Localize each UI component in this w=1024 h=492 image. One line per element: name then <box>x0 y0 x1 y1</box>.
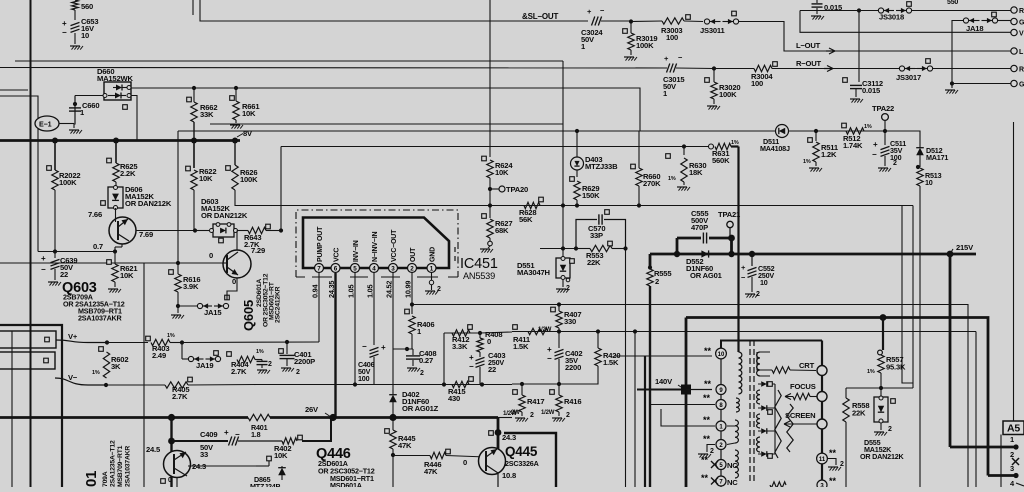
svg-text:−: − <box>547 354 552 363</box>
svg-text:33: 33 <box>200 450 208 459</box>
svg-text:V+: V+ <box>68 332 78 341</box>
wire y331 long line <box>512 332 976 488</box>
wire thick x738 flyback feed <box>731 147 739 353</box>
label NC pin7 <box>711 478 738 488</box>
IC451 pin 6 voltage 24.35 <box>327 281 336 298</box>
transistor Q605 <box>222 231 251 301</box>
wire pin10 top <box>721 341 822 349</box>
wire thick to A5 pin1 <box>950 318 1019 450</box>
svg-text:2: 2 <box>296 369 300 376</box>
resistor R555 <box>647 254 673 487</box>
node bus x235 <box>232 138 238 144</box>
svg-text:OR AG01Z: OR AG01Z <box>402 404 439 413</box>
flyback secondary diode 4 <box>758 451 775 457</box>
label V- <box>68 373 78 382</box>
svg-text:10K: 10K <box>242 109 256 118</box>
IC451 pin 7 <box>315 264 324 273</box>
svg-text:2: 2 <box>268 361 272 368</box>
resistor R553 <box>576 241 626 267</box>
wire corner L-OUT <box>768 22 1012 52</box>
node R511 <box>814 129 818 133</box>
svg-text:OR DAN212K: OR DAN212K <box>201 211 248 220</box>
capacitor C403 <box>469 351 505 385</box>
wire y356 pin10 line <box>614 355 712 357</box>
label Q605 part numbers rotated <box>256 273 282 327</box>
resistor R445 <box>385 418 417 456</box>
wire out line y304 <box>412 305 968 488</box>
svg-text:8V: 8V <box>243 129 253 138</box>
terminal TPA22 <box>872 104 894 131</box>
IC451 pin 6 <box>331 264 340 273</box>
node TPA20 branch <box>488 187 492 191</box>
wire pin1 left <box>661 409 715 426</box>
svg-text:R417: R417 <box>527 397 544 406</box>
diode D555 <box>860 388 905 461</box>
resistor R408 <box>477 330 503 352</box>
capacitor C3015 <box>663 53 714 98</box>
terminal TPA20 <box>490 185 528 194</box>
wire pin4 down <box>373 273 375 345</box>
diode D402 <box>389 390 438 418</box>
node Q445 collector <box>489 429 502 436</box>
svg-text:140V: 140V <box>655 377 673 386</box>
resistor R415 <box>448 377 473 403</box>
svg-text:33K: 33K <box>200 110 214 119</box>
svg-text:100K: 100K <box>719 90 737 99</box>
svg-text:0.94: 0.94 <box>311 283 320 298</box>
svg-text:MA171: MA171 <box>926 153 948 162</box>
connector pin L <box>1011 48 1024 56</box>
flyback pin 11 <box>817 448 844 471</box>
svg-text:2: 2 <box>437 286 441 293</box>
connector pin V <box>1011 29 1024 37</box>
svg-text:2: 2 <box>566 412 570 419</box>
node R513 <box>916 165 920 169</box>
node R616 bottom <box>171 304 184 319</box>
svg-text:IC451: IC451 <box>460 256 498 272</box>
label 0 Q445 <box>463 458 467 467</box>
capacitor C555 <box>691 209 709 244</box>
resistor R511 <box>803 131 839 172</box>
node 26V main <box>168 414 175 421</box>
svg-text:150K: 150K <box>582 191 600 200</box>
IC451 pin 5 voltage 1.05 <box>347 284 356 298</box>
label Q603 group <box>62 280 125 323</box>
node R420 top <box>596 329 600 333</box>
wire line y131 <box>178 130 920 132</box>
svg-text:C409: C409 <box>200 430 217 439</box>
node R643 right <box>279 147 283 233</box>
resistor R660 <box>631 131 661 206</box>
svg-text:4: 4 <box>372 265 376 272</box>
svg-text:MA3047H: MA3047H <box>517 268 550 277</box>
wire thick x645 <box>644 356 646 487</box>
svg-text:100: 100 <box>751 79 763 88</box>
svg-text:−: − <box>872 150 877 159</box>
node rail B x731 <box>728 251 734 257</box>
flyback secondary winding 4 <box>757 437 760 452</box>
wire x490 vertical <box>489 0 491 157</box>
label Q445 group <box>505 444 539 468</box>
diode D660 dual <box>97 67 133 100</box>
resistor R407 <box>538 302 581 333</box>
node y384 C402 <box>557 382 561 386</box>
svg-text:3: 3 <box>1010 464 1014 473</box>
resistor CRT series <box>757 352 816 373</box>
flyback pin 2 <box>716 440 726 450</box>
IC451 pin 1 label GND <box>430 247 437 262</box>
label V+ <box>68 332 78 341</box>
wire pin3 down <box>392 273 394 394</box>
svg-text:A5: A5 <box>1007 423 1020 435</box>
node R621 <box>113 249 117 253</box>
node R629 bottom <box>575 203 579 207</box>
svg-text:709A: 709A <box>102 471 109 487</box>
resistor R3004 <box>714 62 1012 88</box>
resistor R661 <box>230 86 261 123</box>
wire V+ curve <box>56 340 107 343</box>
resistor R3003 <box>631 15 703 42</box>
svg-text:2SC2412KR: 2SC2412KR <box>275 286 282 323</box>
node y384 left <box>520 382 524 386</box>
svg-text:1%: 1% <box>867 369 875 375</box>
wire line y146 <box>281 146 710 148</box>
wire thick y317 line <box>686 318 988 476</box>
node pin5 y384 <box>353 382 357 386</box>
svg-text:01: 01 <box>83 471 100 487</box>
label 140V <box>655 377 684 389</box>
capacitor C570 box <box>576 210 626 249</box>
resistor bottom edge <box>770 482 786 488</box>
svg-text:MTZJ33B: MTZJ33B <box>585 162 618 171</box>
terminal CRT <box>817 366 827 376</box>
svg-text:7.69: 7.69 <box>139 230 153 239</box>
svg-text:+: + <box>381 343 386 352</box>
IC451 pin 6 label VCC <box>334 248 341 262</box>
jumper JS3018 <box>878 2 1012 22</box>
svg-text:+: + <box>62 19 67 28</box>
svg-text:R: R <box>1019 67 1024 74</box>
svg-text:+: + <box>41 254 46 263</box>
label R-OUT <box>796 59 833 72</box>
resistor R624 <box>482 156 514 205</box>
resistor R513 <box>917 168 942 487</box>
label Q601 rotated block <box>83 440 132 487</box>
node C401 <box>285 340 289 344</box>
connector box lower left <box>0 352 55 369</box>
svg-text:10.99: 10.99 <box>404 281 413 298</box>
flyback secondary bus <box>774 384 776 454</box>
svg-text:10: 10 <box>760 278 768 287</box>
svg-text:R: R <box>1019 8 1024 15</box>
ground E-1 <box>69 130 82 134</box>
svg-text:1.8: 1.8 <box>251 430 261 439</box>
capacitor C653 <box>62 10 98 44</box>
svg-text:22K: 22K <box>852 409 866 418</box>
label 7.66 <box>88 210 102 219</box>
svg-text:7.29: 7.29 <box>251 246 265 255</box>
label 0 Q601 <box>161 477 172 484</box>
svg-text:1%: 1% <box>256 349 264 355</box>
svg-text:550: 550 <box>947 0 958 6</box>
svg-text:−: − <box>362 342 367 351</box>
resistor R401 <box>248 414 270 420</box>
svg-text:3: 3 <box>391 265 395 272</box>
node D403 top <box>575 129 579 157</box>
flyback pin stars <box>701 346 712 483</box>
svg-text:2.7K: 2.7K <box>172 392 188 401</box>
resistor R643 <box>237 224 281 249</box>
wire line y263 <box>0 263 222 487</box>
svg-text:R−OUT: R−OUT <box>796 59 822 68</box>
svg-text:VCC−OUT: VCC−OUT <box>391 229 398 262</box>
svg-text:1.2K: 1.2K <box>821 150 837 159</box>
IC451 pin 5 label INV−IN <box>353 240 360 262</box>
resistor R405 <box>106 377 256 401</box>
wire x627 vertical <box>625 249 627 488</box>
wire x178 corner down <box>177 131 179 263</box>
svg-text:**: ** <box>703 434 711 444</box>
svg-text:18K: 18K <box>689 168 703 177</box>
connector A5 box <box>1003 421 1024 435</box>
resistor R558 <box>843 388 870 487</box>
label NC pin5 <box>711 461 738 470</box>
svg-text:1/2W: 1/2W <box>538 327 552 333</box>
svg-text:3.9K: 3.9K <box>183 282 199 291</box>
svg-text:MSD601A: MSD601A <box>330 481 362 487</box>
svg-text:0.7: 0.7 <box>93 242 103 251</box>
box Q445 <box>504 433 556 487</box>
label 24.5 <box>146 445 161 454</box>
svg-text:G: G <box>1019 20 1024 27</box>
wire thick corner right of bus <box>498 418 512 433</box>
svg-text:10: 10 <box>81 31 89 40</box>
svg-text:0: 0 <box>168 477 172 484</box>
wire pin8 left <box>651 404 715 406</box>
svg-text:1%: 1% <box>668 176 676 182</box>
svg-text:−: − <box>62 28 67 37</box>
svg-text:95.3K: 95.3K <box>886 363 906 372</box>
node Q603 collector line <box>193 228 209 232</box>
svg-text:FOCUS: FOCUS <box>790 382 816 391</box>
svg-text:CRT: CRT <box>799 361 815 370</box>
wire y88 from D660 <box>131 88 640 131</box>
svg-text:33P: 33P <box>590 231 603 240</box>
wire thick CRT vertical <box>821 341 823 488</box>
capacitor C402 <box>547 332 582 385</box>
wire line y124 <box>210 123 563 125</box>
svg-text:**: ** <box>701 455 709 465</box>
flyback pin 10 <box>716 348 727 359</box>
label 24.3 Q601 <box>192 462 206 471</box>
svg-text:6: 6 <box>334 265 338 272</box>
node x563 y205 <box>561 203 565 207</box>
svg-text:1%: 1% <box>167 333 175 339</box>
terminal FOCUS <box>817 392 827 402</box>
svg-text:2: 2 <box>710 448 714 455</box>
flyback secondary winding 3 <box>757 414 760 428</box>
svg-text:24.5: 24.5 <box>146 445 161 454</box>
svg-text:VCC: VCC <box>334 248 341 262</box>
svg-text:TPA21: TPA21 <box>718 210 741 219</box>
flyback winding pin1 <box>727 420 738 445</box>
flyback secondary winding 1 <box>757 352 770 376</box>
diode D403 <box>570 155 618 181</box>
resistor R616 <box>169 261 201 306</box>
capacitor C3111 <box>811 0 843 20</box>
resistor R3020 <box>705 69 741 110</box>
node x952 ground <box>945 32 1012 93</box>
ground R661 <box>230 125 243 129</box>
svg-text:NC: NC <box>727 461 738 470</box>
svg-text:2: 2 <box>888 426 892 433</box>
svg-text:0: 0 <box>487 337 491 346</box>
capacitor C405 <box>257 360 273 374</box>
flyback secondary winding 2 <box>757 390 760 404</box>
wire x902 vertical <box>902 206 913 384</box>
resistor R406 <box>405 305 435 350</box>
capacitor C408 <box>406 349 436 377</box>
node rail B x677 <box>674 251 680 257</box>
resistor R653 top 560 <box>72 0 93 11</box>
svg-text:47K: 47K <box>424 467 438 476</box>
node x442 y384 <box>442 333 446 387</box>
resistor R403 <box>107 333 182 360</box>
flyback pin 9 <box>716 385 726 395</box>
svg-text:2: 2 <box>893 160 897 167</box>
node bus x194 <box>191 138 197 144</box>
wire pin7 down <box>318 273 320 342</box>
flyback secondary diode 1 <box>758 381 775 387</box>
svg-text:OR DAN212K: OR DAN212K <box>860 452 905 461</box>
resistor R630 <box>666 144 707 190</box>
label SL-OUT <box>522 12 558 21</box>
svg-text:JS3011: JS3011 <box>700 26 726 35</box>
wire V+ line to C401 <box>182 341 319 344</box>
resistor R420 <box>512 332 620 385</box>
svg-text:1/2W: 1/2W <box>541 410 555 416</box>
wire y205 corner x913 <box>912 206 914 389</box>
svg-text:3K: 3K <box>111 362 121 371</box>
flyback pin chain vertical <box>720 345 722 487</box>
svg-text:PUMP OUT: PUMP OUT <box>317 226 324 262</box>
svg-text:2SA1037AKR: 2SA1037AKR <box>125 446 132 487</box>
wire line y61 <box>15 60 563 62</box>
wire line y90 left <box>0 89 28 91</box>
resistor R416 <box>541 384 581 422</box>
resistor R622 <box>186 141 217 231</box>
wire thick rail A C555 <box>677 238 732 254</box>
svg-text:**: ** <box>703 393 711 403</box>
svg-text:1.5K: 1.5K <box>513 342 529 351</box>
wire 26V bus <box>0 416 498 419</box>
label CRT <box>799 361 815 370</box>
label FOCUS <box>790 382 816 391</box>
node C409 branch <box>168 438 175 445</box>
svg-text:Q445: Q445 <box>505 444 538 459</box>
label R401 value <box>251 423 268 439</box>
capacitor C409 <box>172 428 283 459</box>
svg-text:10K: 10K <box>120 271 134 280</box>
connector pin G <box>1011 18 1024 26</box>
wire line y96 left <box>0 96 38 252</box>
wire thick down from 26V node <box>170 418 172 488</box>
wire x635 vertical <box>634 332 636 488</box>
IC451 pin 4 <box>370 264 379 273</box>
svg-text:1%: 1% <box>92 370 100 376</box>
svg-text:**: ** <box>829 448 837 458</box>
svg-text:11: 11 <box>819 457 826 463</box>
label 0.7 <box>93 242 103 251</box>
wire line y68 <box>0 67 667 70</box>
label SCREEN <box>785 411 815 420</box>
svg-text:24.52: 24.52 <box>385 281 394 298</box>
node R660 bottom <box>637 203 641 207</box>
svg-text:100: 100 <box>666 33 678 42</box>
IC451 pin 3 label VCC−OUT <box>391 229 398 262</box>
resistor FOCUS wiper <box>785 393 817 399</box>
svg-text:&SL−OUT: &SL−OUT <box>522 12 558 21</box>
node TPA21 rail <box>728 235 735 254</box>
svg-text:JA15: JA15 <box>204 308 222 317</box>
node R3020 <box>712 66 716 70</box>
svg-text:100K: 100K <box>240 175 258 184</box>
capacitor C511 <box>872 131 906 172</box>
capacitor C639 <box>41 252 77 286</box>
node R408 top <box>478 331 482 335</box>
svg-text:10.8: 10.8 <box>502 471 516 480</box>
connector A5 pin1 <box>1010 435 1014 444</box>
resistor R626 <box>226 165 913 206</box>
svg-text:V: V <box>1019 31 1024 38</box>
wire corner D512 <box>885 131 920 148</box>
connector box upper left <box>0 331 56 348</box>
label 26V <box>305 405 331 417</box>
svg-text:560K: 560K <box>712 156 730 165</box>
svg-text:1.74K: 1.74K <box>843 141 863 150</box>
svg-text:1%: 1% <box>731 140 739 146</box>
svg-text:+: + <box>873 140 878 149</box>
resistor R446 <box>393 449 486 476</box>
resistor R3019 <box>623 22 658 61</box>
IC451 pin 7 label PUMP OUT <box>317 226 324 262</box>
wire left vertical bus x30 <box>30 0 32 487</box>
label Q605 rotated <box>241 300 256 331</box>
node R3019 <box>629 19 633 23</box>
wire SCREEN wiper <box>784 421 817 427</box>
wire thick to A5 pin3 <box>988 473 1019 478</box>
resistor R631 <box>709 140 739 165</box>
svg-text:22K: 22K <box>587 258 601 267</box>
flyback pin 3 <box>817 476 837 490</box>
svg-text:5: 5 <box>353 265 357 272</box>
capacitor C406 <box>358 342 386 385</box>
wire Q603 emitter line y251 <box>38 251 115 253</box>
connector pin R <box>1011 7 1024 15</box>
ground C653 <box>70 46 83 50</box>
node bus x55 <box>52 138 58 144</box>
node x490 y205 <box>488 203 492 207</box>
wire D660 left <box>75 95 103 97</box>
diode D511 <box>760 125 790 154</box>
flyback pin 5 <box>716 460 726 470</box>
wire R553 line <box>540 248 576 250</box>
jumper JS3017 <box>896 59 933 82</box>
flyback secondary diode 3 <box>758 428 775 434</box>
diode D552 <box>686 250 723 280</box>
wire pin2 ground <box>698 445 715 458</box>
IC451 pin 1 <box>427 264 436 273</box>
